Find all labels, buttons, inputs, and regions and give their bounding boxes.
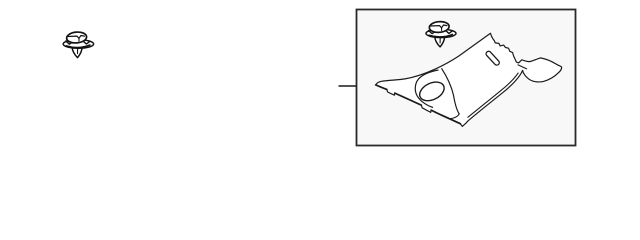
speaker recess right curve	[442, 68, 460, 119]
part box	[357, 10, 576, 146]
flap fold line	[518, 65, 527, 69]
leader line	[339, 85, 357, 87]
speaker oval	[417, 78, 448, 104]
clip (left, loose part)	[63, 31, 93, 57]
speaker recess outer contour	[415, 70, 438, 108]
panel bottom edge bold overdraw	[376, 85, 461, 124]
slot near top right	[485, 50, 500, 66]
clip (inside box)	[426, 21, 456, 47]
trim panel outline	[376, 33, 562, 126]
panel inner edge line (right side)	[468, 73, 519, 118]
